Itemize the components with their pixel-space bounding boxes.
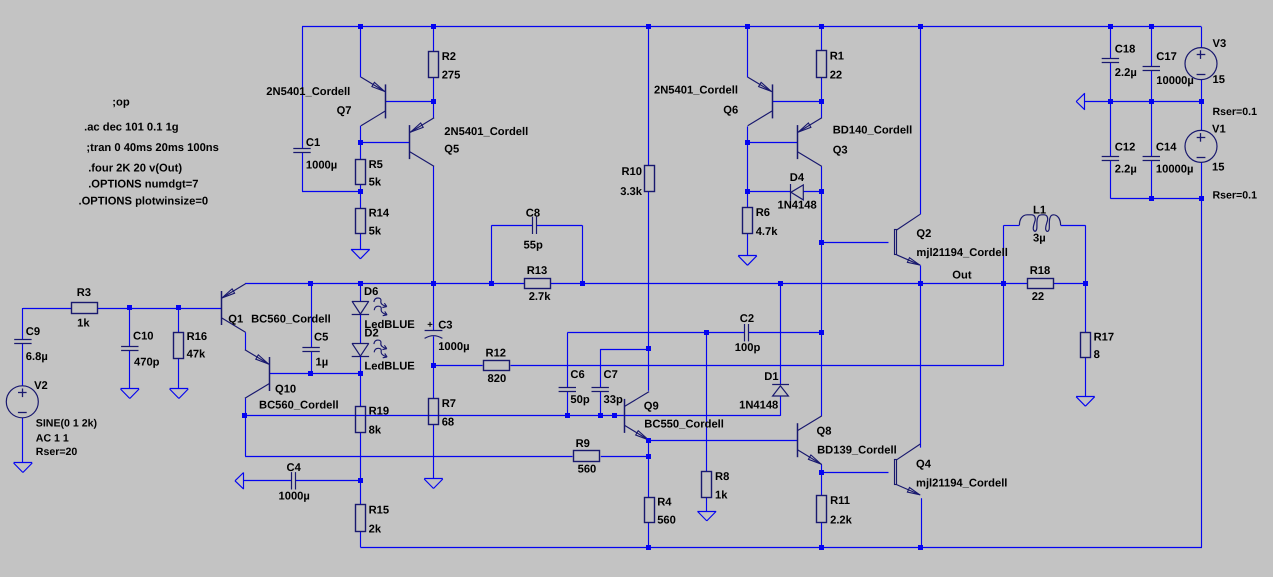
resistor R9 [574,438,600,476]
wire [302,27,304,149]
wire [821,78,823,102]
junction [1149,196,1154,201]
junction [778,281,783,286]
junction [819,545,824,550]
transistor Q6 [748,77,773,126]
diode D2 LedBLUE [352,328,416,373]
svg-text:R3: R3 [77,287,91,299]
junction [431,24,436,29]
junction [745,189,750,194]
svg-text:SINE(0 1 2k): SINE(0 1 2k) [36,418,97,430]
wire [747,27,749,78]
capacitor C7 [592,369,623,406]
junction [1083,281,1088,286]
svg-text:1000µ: 1000µ [438,341,469,353]
wire [311,351,313,374]
wire [747,234,749,256]
svg-text:R19: R19 [369,406,390,418]
ground [235,473,244,490]
wire [920,27,922,215]
wire [1151,102,1153,157]
wire [360,27,362,78]
svg-text:R12: R12 [486,347,507,359]
svg-text:V2: V2 [34,380,48,392]
wire [129,308,131,347]
junction [431,363,436,368]
svg-text:R9: R9 [576,438,590,450]
wire [747,192,749,208]
svg-text:R17: R17 [1094,332,1115,344]
svg-text:AC 1 1: AC 1 1 [36,433,69,445]
svg-text:Q8: Q8 [817,426,832,438]
wire [433,27,435,52]
ground [698,511,717,521]
wire [747,142,749,191]
transistor Q10 [245,350,270,399]
wire [302,153,304,192]
wire [1085,357,1087,397]
svg-text:Rser=0.1: Rser=0.1 [1213,190,1258,202]
wire [22,308,24,340]
junction [646,24,651,29]
svg-text:10000µ: 10000µ [1156,75,1194,87]
svg-text:;tran 0 40ms 20ms 100ns: ;tran 0 40ms 20ms 100ns [86,142,218,154]
resistor R13 [525,265,552,303]
wire [648,283,650,390]
svg-text:C6: C6 [570,369,584,381]
wire [748,191,791,193]
transistor Q3 [798,118,822,167]
wire [311,283,313,347]
wire [567,391,569,416]
svg-text:C10: C10 [133,331,154,343]
wire [567,333,569,388]
wire [433,366,435,399]
svg-text:R7: R7 [442,398,456,410]
junction [1108,99,1113,104]
net Q9 base row [245,415,780,417]
wire [1201,80,1203,102]
wire [385,101,433,103]
svg-text:+: + [427,319,433,330]
wire [748,142,798,144]
wire [491,225,493,283]
wire [1110,62,1112,101]
wire [1085,225,1087,283]
transistor Q1 [221,284,245,333]
junction [127,305,132,310]
wire [821,465,823,473]
resistor R3 [72,287,98,330]
diode D4 1N4148 [778,172,817,212]
capacitor C10 [121,331,160,369]
svg-text:22: 22 [1032,291,1044,303]
capacitor C12 [1102,142,1137,176]
wire [245,332,247,350]
wire [1201,102,1203,131]
junction [819,470,824,475]
transistor Q9 [625,392,650,441]
junction [612,413,617,418]
junction [489,281,494,286]
junction [918,24,923,29]
wire [245,399,247,416]
ground [1076,93,1085,110]
wire [821,472,823,496]
junction [646,545,651,550]
resistor R8 [702,471,730,501]
wire [245,416,247,456]
svg-text:560: 560 [578,464,597,476]
junction [1149,99,1154,104]
svg-text:33p: 33p [604,394,623,406]
svg-text:R8: R8 [715,471,729,483]
capacitor C3 (polarized) [425,319,470,353]
svg-text:820: 820 [488,373,507,385]
svg-text:10000µ: 10000µ [1156,164,1194,176]
wire [129,351,131,389]
svg-text:2.2µ: 2.2µ [1115,164,1137,176]
wire [1201,162,1203,198]
svg-text:2.7k: 2.7k [529,291,552,303]
wire [360,531,362,547]
net supply bottom row [1110,198,1201,200]
wire [1085,283,1087,332]
resistor R16 [174,331,208,361]
wire [920,265,922,283]
wire [601,456,649,458]
svg-text:R11: R11 [830,495,850,507]
wire [311,373,360,375]
wire [821,522,823,547]
wire [360,357,362,374]
svg-text:Out: Out [952,270,972,282]
svg-text:BC560_Cordell: BC560_Cordell [259,399,339,411]
diode D6 LedBLUE [352,286,416,331]
ground [424,479,443,489]
transistor Q7 [361,77,386,126]
wire [178,359,180,390]
junction [598,413,603,418]
svg-text:R10: R10 [621,166,642,178]
svg-text:V1: V1 [1212,123,1226,135]
capacitor C18 [1102,44,1137,79]
svg-text:R4: R4 [657,497,672,509]
junction [704,330,709,335]
wire [648,522,650,547]
net mid/out rail [245,283,524,285]
wire [245,456,572,458]
svg-text:Rser=0.1: Rser=0.1 [1213,106,1258,118]
junction [646,346,651,351]
svg-text:4.7k: 4.7k [756,226,779,238]
wire [1151,161,1153,199]
svg-text:470p: 470p [134,357,160,369]
resistor R10 [620,166,654,198]
wire [921,498,923,547]
svg-text:Q3: Q3 [833,145,848,157]
svg-text:.ac dec 101 0.1 1g: .ac dec 101 0.1 1g [84,122,179,134]
capacitor C17 [1143,51,1194,87]
wire [1201,27,1203,48]
wire [536,225,582,227]
transistor Q8 [798,416,822,465]
svg-text:6.8µ: 6.8µ [26,351,48,363]
svg-text:2.2k: 2.2k [830,514,853,526]
svg-text:R15: R15 [369,504,390,516]
svg-text:Q1: Q1 [228,313,243,325]
svg-text:C18: C18 [1115,44,1136,56]
junction [565,413,570,418]
svg-text:22: 22 [830,70,842,82]
wire [648,440,650,497]
svg-text:C1: C1 [306,137,320,149]
svg-text:2N5401_Cordell: 2N5401_Cordell [266,86,350,98]
wire [780,283,782,384]
ground [738,256,757,266]
svg-text:D1: D1 [764,371,778,383]
svg-text:R18: R18 [1030,265,1051,277]
wire [22,343,24,385]
svg-text:R2: R2 [442,51,456,63]
wire [1110,27,1112,58]
voltage source V1 [1185,123,1257,201]
svg-text:2.2µ: 2.2µ [1115,67,1137,79]
ground [14,463,33,473]
svg-text:2N5401_Cordell: 2N5401_Cordell [444,126,528,138]
svg-text:1k: 1k [77,318,90,330]
wire [1061,225,1086,227]
wire [302,191,360,193]
voltage source V3 [1185,38,1257,118]
svg-text:Q5: Q5 [444,144,459,156]
net input row [23,308,72,310]
ground [121,389,140,399]
junction [819,240,824,245]
wire [433,78,435,102]
wire [822,242,889,244]
resistor R14 [356,207,390,237]
wire [600,391,602,416]
spice directives [79,96,219,207]
wire [821,192,823,333]
wire [178,308,180,333]
svg-text:68: 68 [442,417,454,429]
junction [819,330,824,335]
wire [360,481,362,505]
capacitor C2 [735,313,761,354]
wire [1110,102,1112,157]
resistor R2 [429,51,461,82]
svg-text:8k: 8k [369,425,382,437]
wire [600,349,602,387]
junction [1149,24,1154,29]
wire [360,185,362,209]
wire [244,480,292,482]
svg-text:Q10: Q10 [275,383,296,395]
svg-text:2N5401_Cordell: 2N5401_Cordell [654,85,738,97]
svg-text:5k: 5k [369,177,382,189]
svg-text:BD139_Cordell: BD139_Cordell [817,445,897,457]
resistor R17 [1081,332,1115,362]
resistor R6 [743,207,779,238]
resistor R11 [817,495,853,526]
net V+ top rail [302,26,1201,28]
svg-text:C12: C12 [1115,142,1136,154]
wire [648,27,650,166]
junction [918,281,923,286]
svg-text:R5: R5 [369,159,383,171]
wire [803,191,821,193]
wire [747,126,749,142]
svg-text:R14: R14 [369,207,390,219]
svg-text:C17: C17 [1156,51,1177,63]
wire [649,440,798,442]
svg-text:BC550_Cordell: BC550_Cordell [644,418,724,430]
wire [360,126,362,142]
capacitor C8 [524,207,543,251]
wire [821,333,823,417]
junction [1199,99,1204,104]
svg-text:47k: 47k [187,349,206,361]
ground [1076,397,1095,407]
svg-text:275: 275 [442,70,461,82]
junction [358,281,363,286]
svg-text:C2: C2 [740,313,754,325]
wire [433,166,435,283]
svg-text:D2: D2 [364,328,378,340]
wire [360,142,409,144]
ground [351,249,370,258]
wire [821,101,823,118]
svg-text:.four 2K 20 v(Out): .four 2K 20 v(Out) [88,163,182,175]
resistor R4 [645,497,676,527]
resistor R19 [356,406,390,437]
svg-text:C7: C7 [604,369,618,381]
wire [822,472,889,474]
svg-text:C9: C9 [26,326,40,338]
svg-text:L1: L1 [1033,205,1046,217]
svg-text:5k: 5k [369,226,382,238]
resistor R7 [429,398,457,429]
junction [646,438,651,443]
wire [1151,27,1153,67]
svg-text:.OPTIONS plotwinsize=0: .OPTIONS plotwinsize=0 [79,195,209,207]
resistor R15 [356,504,390,535]
junction [358,140,363,145]
svg-text:Rser=20: Rser=20 [36,446,78,458]
svg-text:15: 15 [1213,74,1225,86]
wire [360,433,362,481]
svg-text:.OPTIONS numdgt=7: .OPTIONS numdgt=7 [88,179,198,191]
svg-text:mjl21194_Cordell: mjl21194_Cordell [916,477,1007,489]
wire [360,283,362,301]
svg-text:8: 8 [1094,349,1100,361]
junction [358,189,363,194]
svg-text:mjl21194_Cordell: mjl21194_Cordell [916,247,1007,259]
svg-text:BD140_Cordell: BD140_Cordell [833,125,913,137]
svg-text:Q6: Q6 [723,104,738,116]
wire [706,497,708,511]
resistor R12 [484,347,510,385]
svg-text:55p: 55p [524,239,543,251]
svg-text:3µ: 3µ [1033,232,1046,244]
junction [745,24,750,29]
svg-text:R1: R1 [830,50,844,62]
wire [360,315,362,344]
junction [745,140,750,145]
junction [358,24,363,29]
svg-text:C5: C5 [314,332,328,344]
svg-text:15: 15 [1212,162,1224,174]
junction [918,545,923,550]
wire [1003,225,1005,283]
svg-text:D4: D4 [790,172,805,184]
wire [1110,161,1112,199]
junction [242,413,247,418]
svg-text:;op: ;op [112,96,130,108]
wire [821,27,823,51]
ground [170,389,189,399]
svg-text:R13: R13 [527,265,548,277]
net C2 row [567,332,745,334]
svg-text:1N4148: 1N4148 [739,400,778,412]
svg-text:100p: 100p [735,342,761,354]
voltage source V2 (SINE) [6,380,97,458]
wire [1201,199,1203,548]
wire [920,283,922,447]
diode D1 1N4148 [739,371,789,411]
wire [1151,71,1153,102]
wire [600,349,649,351]
wire [1003,283,1005,365]
junction [819,189,824,194]
junction [1001,281,1006,286]
net V- bottom rail [360,547,1202,549]
junction [819,24,824,29]
resistor R18 [1028,265,1054,303]
svg-text:R6: R6 [756,207,770,219]
svg-text:2k: 2k [369,523,382,535]
net supply mid row [1085,101,1202,103]
wire [433,425,435,479]
junction [1108,24,1113,29]
transistor Q5 [410,118,435,167]
resistor R5 [356,159,383,189]
wire [433,283,435,330]
wire [296,480,361,482]
svg-text:Q4: Q4 [916,459,932,471]
wire [22,418,24,463]
wire [433,101,435,118]
svg-text:1k: 1k [715,489,728,501]
junction [646,454,651,459]
svg-text:D6: D6 [364,286,378,298]
svg-text:C4: C4 [287,462,302,474]
inductor L1 [1019,205,1060,245]
junction [431,99,436,104]
svg-text:C3: C3 [438,319,452,331]
wire [492,225,532,227]
svg-text:50p: 50p [570,394,589,406]
capacitor C14 [1143,142,1194,176]
junction [431,281,436,286]
svg-text:1µ: 1µ [316,357,329,369]
svg-text:Q9: Q9 [644,401,659,413]
wire [433,336,435,365]
svg-text:Q2: Q2 [916,228,931,240]
svg-text:R16: R16 [187,331,208,343]
